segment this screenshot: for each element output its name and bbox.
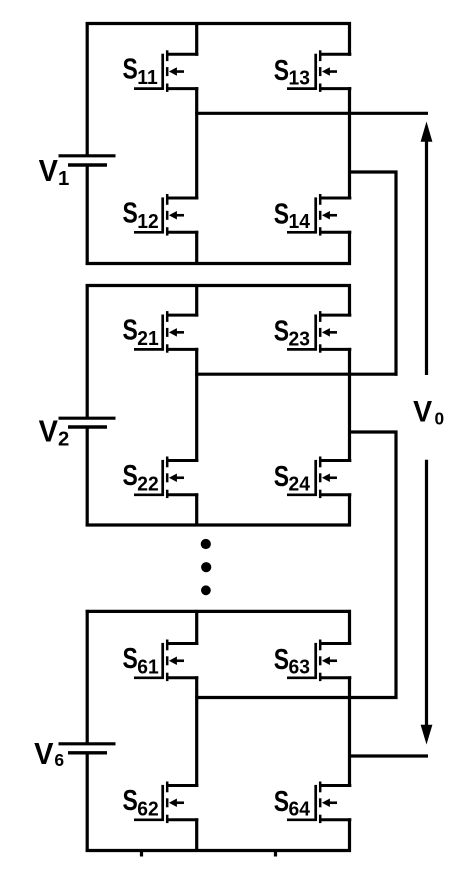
svg-text:S: S bbox=[274, 784, 289, 817]
wire: cell left leg top segment (rail to S11 drain) bbox=[195, 22, 198, 56]
svg-text:11: 11 bbox=[137, 67, 157, 90]
wire: cell 2 left battery wire lower bbox=[86, 427, 89, 527]
wire: cell right leg middle segment (S63 source to S64 drain) bbox=[348, 676, 351, 787]
transistor S14 bbox=[287, 194, 351, 236]
svg-text:S: S bbox=[123, 458, 138, 491]
battery V2 bbox=[59, 418, 116, 427]
label S62 bbox=[123, 783, 159, 820]
svg-text:S: S bbox=[274, 197, 289, 230]
label S14 bbox=[274, 197, 310, 233]
wire: cell 1 top rail bbox=[86, 22, 351, 25]
svg-text:64: 64 bbox=[289, 798, 310, 821]
svg-text:S: S bbox=[123, 641, 138, 674]
svg-text:S: S bbox=[123, 196, 138, 229]
wire: cell 2 top rail bbox=[86, 284, 351, 287]
wire: cell 6 left battery wire lower bbox=[86, 752, 89, 852]
svg-text:S: S bbox=[123, 52, 138, 85]
svg-text:63: 63 bbox=[289, 656, 310, 679]
wire: cell 2 left battery wire upper bbox=[86, 284, 89, 419]
wire: cell 2 left-leg midpoint line (node b) bbox=[195, 373, 397, 376]
svg-text:V: V bbox=[39, 415, 58, 449]
wire: cascade connector cell1 to cell2 bbox=[394, 171, 397, 376]
svg-text:S: S bbox=[274, 53, 289, 86]
transistor S21 bbox=[134, 311, 198, 353]
transistor S13 bbox=[287, 50, 351, 92]
wire: cell 2 right-leg midpoint branch bbox=[348, 430, 398, 433]
transistor S63 bbox=[287, 640, 351, 682]
wire: cell left leg middle segment (S21 source to S22 drain) bbox=[195, 348, 198, 462]
transistor S62 bbox=[134, 782, 198, 824]
svg-text:2: 2 bbox=[58, 428, 69, 450]
wire: cell 1 left battery wire lower bbox=[86, 165, 89, 266]
label V6 bbox=[34, 737, 64, 771]
svg-text:V: V bbox=[413, 396, 432, 429]
wire: cell 2 bottom rail bbox=[86, 523, 351, 526]
wire: stub below bottom rail right bbox=[274, 851, 277, 857]
svg-text:21: 21 bbox=[137, 328, 158, 351]
svg-text:14: 14 bbox=[289, 211, 310, 234]
label S23 bbox=[274, 314, 310, 350]
wire: cell left leg middle segment (S61 source to S62 drain) bbox=[195, 676, 198, 787]
wire: cell right leg top segment (rail to S23 drain) bbox=[348, 284, 351, 317]
svg-text:0: 0 bbox=[435, 408, 445, 428]
wire: cell 1 right-leg midpoint branch bbox=[348, 170, 398, 173]
svg-text:S: S bbox=[274, 459, 289, 492]
wire: cell left leg bottom segment (S12 source to bottom rail) bbox=[195, 231, 198, 265]
svg-text:S: S bbox=[123, 783, 138, 816]
wire: cell right leg top segment (rail to S63 drain) bbox=[348, 610, 351, 645]
wire: cell 6 bottom rail bbox=[86, 849, 351, 852]
label S11 bbox=[123, 52, 158, 89]
svg-text:23: 23 bbox=[289, 328, 310, 351]
wire: cell right leg bottom segment (S24 source to bottom rail) bbox=[348, 493, 351, 526]
wire: cell left leg top segment (rail to S21 drain) bbox=[195, 284, 198, 317]
label V2 bbox=[39, 415, 70, 451]
transistor S24 bbox=[287, 457, 351, 499]
wire: cell 6 left battery wire upper bbox=[86, 610, 89, 744]
svg-text:V: V bbox=[34, 737, 53, 771]
wire: cell 6 right-leg midpoint output line (bottom terminal) bbox=[348, 754, 428, 757]
label V1 bbox=[39, 154, 70, 190]
transistor S11 bbox=[134, 50, 198, 92]
svg-text:22: 22 bbox=[137, 473, 158, 496]
transistor S61 bbox=[134, 640, 198, 682]
label V0 bbox=[413, 396, 444, 429]
wire: cell 1 bottom rail bbox=[86, 262, 351, 265]
wire: cell right leg middle segment (S23 source to S24 drain) bbox=[348, 348, 351, 462]
transistor S22 bbox=[134, 457, 198, 499]
wire: cell 1 left battery wire upper bbox=[86, 22, 89, 156]
label S24 bbox=[274, 459, 310, 495]
node: ellipsis dot 2 bbox=[201, 562, 211, 572]
svg-text:61: 61 bbox=[137, 656, 158, 679]
svg-text:13: 13 bbox=[289, 67, 310, 90]
svg-text:24: 24 bbox=[289, 473, 310, 496]
wire: cell right leg bottom segment (S64 source to bottom rail) bbox=[348, 818, 351, 852]
wire: stub below bottom rail left bbox=[140, 851, 143, 857]
battery V6 bbox=[59, 744, 116, 753]
wire: cell left leg top segment (rail to S61 drain) bbox=[195, 610, 198, 645]
wire: cell right leg middle segment (S13 source to S14 drain) bbox=[348, 87, 351, 199]
wire: cell left leg bottom segment (S22 source to bottom rail) bbox=[195, 493, 198, 526]
node: ellipsis dot 3 bbox=[201, 585, 211, 595]
svg-text:S: S bbox=[274, 314, 289, 347]
wire: cell right leg bottom segment (S14 source to bottom rail) bbox=[348, 231, 351, 265]
svg-text:S: S bbox=[274, 642, 289, 675]
node: ellipsis dot 1 bbox=[201, 539, 211, 549]
label S22 bbox=[123, 458, 159, 495]
wire: cell 6 left-leg midpoint line bbox=[195, 696, 397, 699]
label S21 bbox=[123, 313, 159, 350]
svg-text:62: 62 bbox=[137, 798, 158, 821]
label S12 bbox=[123, 196, 159, 233]
battery V1 bbox=[59, 156, 116, 165]
svg-text:S: S bbox=[123, 313, 138, 346]
wire: cell left leg bottom segment (S62 source to bottom rail) bbox=[195, 818, 198, 852]
wire: cell right leg top segment (rail to S13 drain) bbox=[348, 22, 351, 56]
wire: cell left leg middle segment (S11 source to S12 drain) bbox=[195, 87, 198, 199]
transistor S64 bbox=[287, 782, 351, 824]
svg-text:12: 12 bbox=[137, 210, 158, 233]
label S13 bbox=[274, 53, 310, 89]
wire: V0 arrow upper segment (arrowhead up) bbox=[421, 122, 433, 376]
svg-text:6: 6 bbox=[54, 750, 64, 770]
wire: cascade connector cell2 to cell6 bbox=[394, 431, 397, 700]
wire: V0 arrow lower segment (arrowhead down) bbox=[421, 460, 433, 745]
transistor S23 bbox=[287, 311, 351, 353]
label S64 bbox=[274, 784, 310, 820]
wire: cell 1 left-leg midpoint output line (node a) bbox=[195, 112, 428, 115]
transistor S12 bbox=[134, 194, 198, 236]
label S63 bbox=[274, 642, 310, 678]
svg-text:1: 1 bbox=[58, 168, 69, 190]
svg-text:V: V bbox=[39, 154, 58, 188]
wire: cell 6 top rail bbox=[86, 610, 351, 613]
label S61 bbox=[123, 641, 159, 678]
